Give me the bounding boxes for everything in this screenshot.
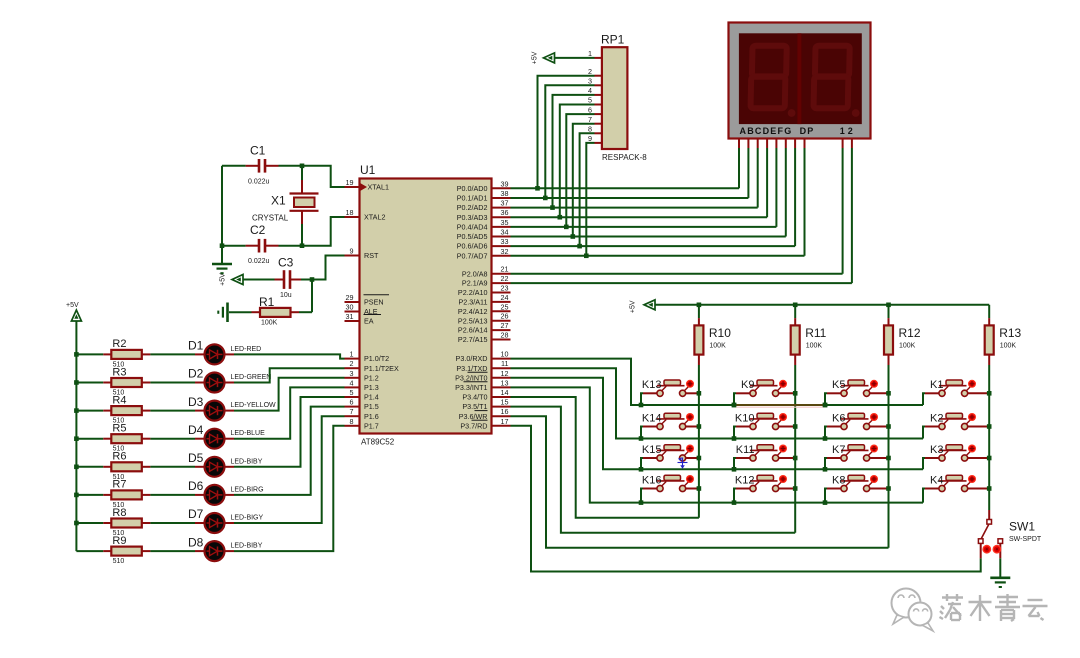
svg-text:P0.0/AD0: P0.0/AD0 <box>457 184 488 193</box>
svg-text:LED-YELLOW: LED-YELLOW <box>231 402 277 409</box>
svg-text:37: 37 <box>501 199 509 208</box>
svg-text:26: 26 <box>501 312 509 321</box>
svg-text:K6: K6 <box>832 412 845 424</box>
svg-text:K13: K13 <box>642 379 662 391</box>
svg-text:K2: K2 <box>930 412 943 424</box>
svg-text:P0.2/AD2: P0.2/AD2 <box>457 203 488 212</box>
svg-text:P2.4/A12: P2.4/A12 <box>458 307 488 316</box>
svg-text:15: 15 <box>501 398 509 407</box>
svg-text:P3.0/RXD: P3.0/RXD <box>456 354 488 363</box>
svg-text:1: 1 <box>350 350 354 359</box>
svg-text:2: 2 <box>350 359 354 368</box>
svg-text:P1.6: P1.6 <box>364 412 379 421</box>
svg-text:K4: K4 <box>930 474 943 486</box>
svg-text:R1: R1 <box>259 295 275 309</box>
svg-text:D5: D5 <box>188 451 204 465</box>
svg-text:R3: R3 <box>112 366 126 378</box>
svg-text:K16: K16 <box>642 474 662 486</box>
svg-text:6: 6 <box>350 398 354 407</box>
svg-text:K12: K12 <box>735 474 755 486</box>
svg-text:P3.1/TXD: P3.1/TXD <box>456 364 487 373</box>
svg-text:D2: D2 <box>188 367 204 381</box>
svg-text:P3.3/INT1: P3.3/INT1 <box>455 383 487 392</box>
svg-text:P2.5/A13: P2.5/A13 <box>458 316 488 325</box>
svg-text:35: 35 <box>501 218 509 227</box>
svg-text:P1.0/T2: P1.0/T2 <box>364 354 389 363</box>
svg-text:LED-BIGY: LED-BIGY <box>231 515 264 522</box>
svg-text:P2.1/A9: P2.1/A9 <box>462 279 488 288</box>
svg-text:8: 8 <box>350 417 354 426</box>
svg-text:C3: C3 <box>278 256 294 270</box>
svg-text:EA: EA <box>364 317 374 326</box>
svg-text:14: 14 <box>501 388 509 397</box>
svg-text:31: 31 <box>346 312 354 321</box>
svg-text:3: 3 <box>588 77 592 86</box>
svg-text:36: 36 <box>501 208 509 217</box>
svg-text:R10: R10 <box>709 326 731 340</box>
svg-text:39: 39 <box>501 179 509 188</box>
svg-text:5: 5 <box>588 96 592 105</box>
svg-text:510: 510 <box>113 558 125 565</box>
svg-text:X1: X1 <box>271 194 286 208</box>
svg-text:P1.7: P1.7 <box>364 421 379 430</box>
svg-text:P1.2: P1.2 <box>364 373 379 382</box>
svg-text:K15: K15 <box>642 444 662 456</box>
svg-text:D6: D6 <box>188 479 204 493</box>
svg-text:9: 9 <box>588 134 592 143</box>
svg-text:34: 34 <box>501 228 509 237</box>
svg-text:P0.5/AD5: P0.5/AD5 <box>457 232 488 241</box>
svg-text:SW1: SW1 <box>1009 520 1035 534</box>
svg-text:P0.4/AD4: P0.4/AD4 <box>457 222 488 231</box>
svg-text:P1.5: P1.5 <box>364 402 379 411</box>
svg-text:2: 2 <box>588 67 592 76</box>
svg-text:R5: R5 <box>112 423 126 435</box>
svg-text:10u: 10u <box>280 292 292 299</box>
svg-text:P2.2/A10: P2.2/A10 <box>458 288 488 297</box>
svg-text:PSEN: PSEN <box>364 298 384 307</box>
svg-text:P0.1/AD1: P0.1/AD1 <box>457 194 488 203</box>
svg-text:R13: R13 <box>999 326 1021 340</box>
svg-text:11: 11 <box>501 359 508 368</box>
svg-text:LED-BIBY: LED-BIBY <box>231 458 263 465</box>
svg-text:19: 19 <box>346 178 354 187</box>
svg-text:29: 29 <box>346 293 354 302</box>
svg-text:10: 10 <box>501 350 509 359</box>
svg-text:P2.0/A8: P2.0/A8 <box>462 269 488 278</box>
svg-text:9: 9 <box>350 247 354 256</box>
svg-text:P3.2/INT0: P3.2/INT0 <box>455 373 487 382</box>
svg-text:P3.6/WR: P3.6/WR <box>459 412 488 421</box>
svg-text:R12: R12 <box>899 326 921 340</box>
svg-text:D8: D8 <box>188 535 204 549</box>
svg-text:25: 25 <box>501 302 509 311</box>
svg-text:DP: DP <box>800 126 815 136</box>
svg-text:100K: 100K <box>261 320 278 327</box>
svg-text:+5V: +5V <box>66 302 79 309</box>
svg-text:23: 23 <box>501 284 509 293</box>
svg-text:P3.5/T1: P3.5/T1 <box>462 402 487 411</box>
svg-text:+5V: +5V <box>220 273 227 286</box>
svg-text:XTAL1: XTAL1 <box>368 183 389 192</box>
svg-text:0.022u: 0.022u <box>248 258 270 265</box>
svg-text:P2.3/A11: P2.3/A11 <box>458 298 487 307</box>
svg-text:6: 6 <box>588 105 592 114</box>
svg-text:+5V: +5V <box>532 51 539 64</box>
svg-text:12: 12 <box>501 369 509 378</box>
svg-text:100K: 100K <box>1000 343 1017 350</box>
svg-text:18: 18 <box>346 208 354 217</box>
svg-text:0.022u: 0.022u <box>248 178 270 185</box>
svg-text:5: 5 <box>350 388 354 397</box>
svg-text:R7: R7 <box>112 479 126 491</box>
svg-text:K9: K9 <box>741 379 754 391</box>
svg-text:RESPACK-8: RESPACK-8 <box>602 153 647 162</box>
svg-text:1: 1 <box>588 49 592 58</box>
svg-text:33: 33 <box>501 237 509 246</box>
svg-text:+5V: +5V <box>630 300 637 313</box>
svg-text:LED-BLUE: LED-BLUE <box>231 430 266 437</box>
svg-text:8: 8 <box>588 125 592 134</box>
svg-text:2: 2 <box>848 126 853 136</box>
svg-text:R11: R11 <box>805 326 826 340</box>
svg-text:7: 7 <box>350 407 354 416</box>
svg-text:D4: D4 <box>188 423 204 437</box>
svg-text:C2: C2 <box>250 223 266 237</box>
svg-text:K14: K14 <box>642 412 662 424</box>
svg-text:P1.1/T2EX: P1.1/T2EX <box>364 364 399 373</box>
svg-text:AT89C52: AT89C52 <box>361 438 395 447</box>
svg-text:7: 7 <box>588 115 592 124</box>
svg-text:K1: K1 <box>930 379 943 391</box>
svg-text:ABCDEFG: ABCDEFG <box>740 126 793 136</box>
svg-text:LED-BIRG: LED-BIRG <box>231 486 264 493</box>
svg-text:K5: K5 <box>832 379 845 391</box>
svg-text:27: 27 <box>501 321 509 330</box>
svg-text:R6: R6 <box>112 451 126 463</box>
svg-text:R4: R4 <box>112 394 126 406</box>
svg-text:C1: C1 <box>250 143 266 157</box>
svg-text:K3: K3 <box>930 444 943 456</box>
svg-text:P2.6/A14: P2.6/A14 <box>458 326 488 335</box>
svg-text:30: 30 <box>346 303 354 312</box>
svg-text:P0.6/AD6: P0.6/AD6 <box>457 242 488 251</box>
svg-text:17: 17 <box>501 417 509 426</box>
svg-text:4: 4 <box>350 378 354 387</box>
svg-text:13: 13 <box>501 378 509 387</box>
svg-text:LED-RED: LED-RED <box>231 346 262 353</box>
svg-text:D7: D7 <box>188 507 204 521</box>
svg-text:RP1: RP1 <box>601 33 625 47</box>
svg-text:RST: RST <box>364 251 379 260</box>
svg-text:R9: R9 <box>112 535 126 547</box>
svg-text:LED-GREEN: LED-GREEN <box>231 374 272 381</box>
svg-text:XTAL2: XTAL2 <box>364 213 385 222</box>
svg-text:D1: D1 <box>188 339 204 353</box>
svg-text:P1.3: P1.3 <box>364 383 379 392</box>
svg-text:R8: R8 <box>112 507 126 519</box>
svg-text:4: 4 <box>588 86 592 95</box>
svg-text:16: 16 <box>501 407 509 416</box>
svg-text:P0.7/AD7: P0.7/AD7 <box>457 251 488 260</box>
svg-text:38: 38 <box>501 189 509 198</box>
svg-text:P1.4: P1.4 <box>364 393 379 402</box>
svg-text:K10: K10 <box>735 412 755 424</box>
svg-text:1: 1 <box>840 126 845 136</box>
svg-text:22: 22 <box>501 274 509 283</box>
svg-text:P0.3/AD3: P0.3/AD3 <box>457 213 488 222</box>
svg-text:P3.4/T0: P3.4/T0 <box>462 393 487 402</box>
svg-text:24: 24 <box>501 293 509 302</box>
svg-text:K7: K7 <box>832 444 845 456</box>
svg-text:3: 3 <box>350 369 354 378</box>
svg-text:K8: K8 <box>832 474 845 486</box>
svg-text:21: 21 <box>501 265 509 274</box>
svg-text:100K: 100K <box>899 343 916 350</box>
svg-text:P2.7/A15: P2.7/A15 <box>458 335 488 344</box>
svg-text:P3.7/RD: P3.7/RD <box>460 421 487 430</box>
svg-text:U1: U1 <box>360 163 376 177</box>
svg-text:LED-BIBY: LED-BIBY <box>231 543 263 550</box>
svg-text:CRYSTAL: CRYSTAL <box>252 214 289 223</box>
svg-text:SW-SPDT: SW-SPDT <box>1009 536 1042 543</box>
svg-text:R2: R2 <box>112 338 126 350</box>
svg-text:K11: K11 <box>736 444 755 456</box>
svg-text:32: 32 <box>501 247 509 256</box>
svg-text:28: 28 <box>501 331 509 340</box>
svg-text:100K: 100K <box>806 343 823 350</box>
svg-text:D3: D3 <box>188 395 204 409</box>
svg-text:100K: 100K <box>709 343 726 350</box>
